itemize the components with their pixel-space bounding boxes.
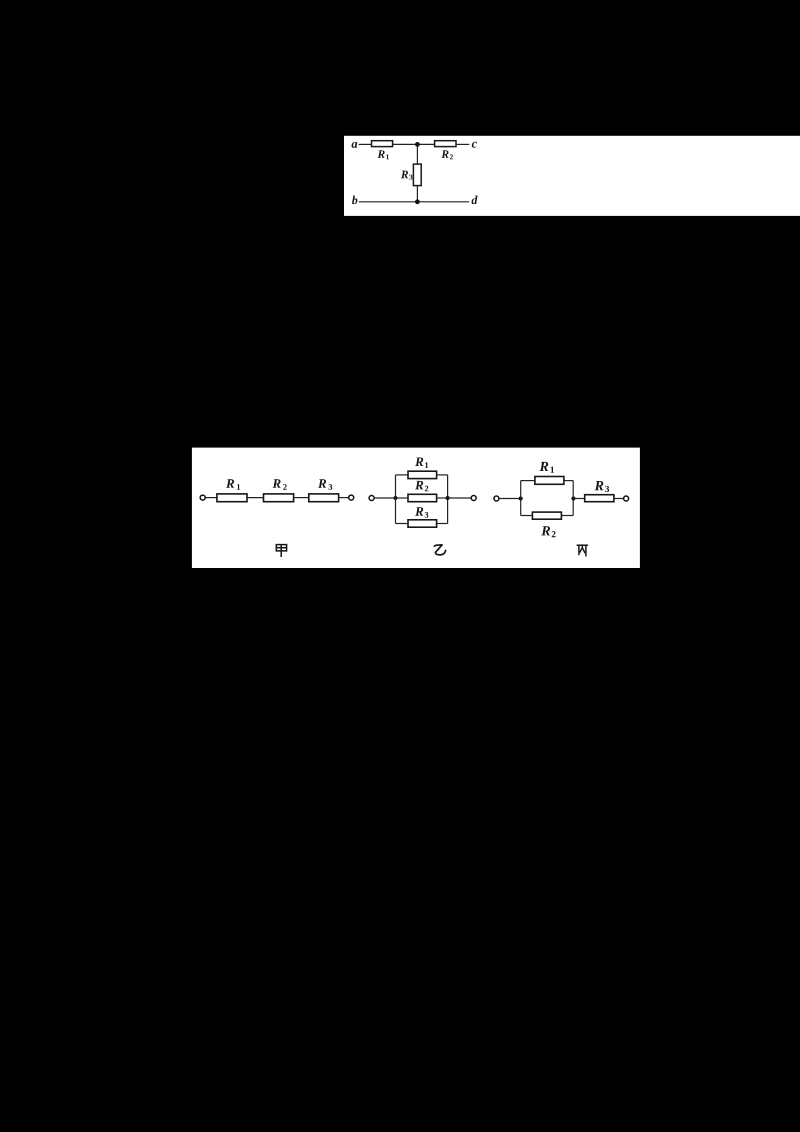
jia character <box>276 545 286 557</box>
R3 label bing <box>595 481 604 490</box>
node junction top <box>415 142 420 147</box>
wire b to d <box>359 201 469 203</box>
resistor R1 jia <box>217 494 247 502</box>
node a label <box>352 142 358 148</box>
wire R3 to bottom node <box>416 186 418 202</box>
mid branch wire yi <box>396 497 409 499</box>
wire <box>448 497 472 499</box>
resistor R2 <box>435 141 456 147</box>
wire <box>339 497 349 499</box>
figure 1 white panel <box>344 136 800 216</box>
R2 value label <box>441 150 448 158</box>
terminal right yi <box>471 496 476 501</box>
wire <box>205 497 217 499</box>
R1 value label <box>377 150 384 158</box>
terminal right jia <box>349 495 354 500</box>
R2 label jia <box>272 479 280 488</box>
wire a to R1 <box>359 143 372 145</box>
resistor R2 yi <box>408 494 437 501</box>
right rail bing <box>572 481 574 516</box>
yi character <box>434 545 445 555</box>
wire <box>437 497 448 499</box>
left rail bing <box>520 481 522 516</box>
figure 2 white panel <box>192 448 640 568</box>
top branch bing <box>521 480 535 482</box>
terminal right bing <box>624 496 629 501</box>
R1 label yi <box>415 457 423 466</box>
R3 value label <box>401 171 408 179</box>
node right yi <box>446 496 450 500</box>
wire <box>573 498 584 500</box>
circuit bing: terminal left <box>494 496 499 501</box>
bottom branch bing <box>521 515 533 517</box>
node b label <box>352 196 357 204</box>
circuit jia: terminal left <box>200 495 205 500</box>
resistor R3 jia <box>309 494 339 502</box>
bottom branch wire yi <box>396 523 409 525</box>
node left yi <box>394 496 398 500</box>
wire <box>247 497 264 499</box>
node right bing <box>571 497 575 501</box>
circuit yi: terminal left <box>369 496 374 501</box>
top branch wire yi <box>396 474 409 476</box>
resistor R2 jia <box>264 494 294 502</box>
node d label <box>472 196 478 204</box>
resistor R3 bing <box>585 495 614 502</box>
wire <box>437 523 448 525</box>
resistor R3 vertical <box>413 164 421 186</box>
wire <box>564 480 573 482</box>
wire <box>499 498 521 500</box>
resistor R1 yi <box>408 471 437 478</box>
resistor R3 yi <box>408 520 437 527</box>
node left bing <box>519 497 523 501</box>
R3 label yi <box>415 507 423 516</box>
R1 label jia <box>226 479 234 488</box>
node c label <box>472 142 477 148</box>
right rail yi <box>447 475 449 524</box>
wire <box>614 498 624 500</box>
R3 label jia <box>318 479 326 488</box>
left rail yi <box>395 475 397 524</box>
wire node to R3 <box>416 144 418 164</box>
wire <box>294 497 309 499</box>
resistor R2 bing <box>532 512 561 519</box>
wire R1 to node to R2 <box>393 143 435 145</box>
R2 label yi <box>415 481 423 490</box>
resistor R1 <box>372 141 393 147</box>
bing character <box>577 545 589 556</box>
resistor R1 bing <box>535 477 564 485</box>
wire <box>561 515 573 517</box>
R1 label bing <box>539 462 548 471</box>
R2 label bing <box>541 526 550 535</box>
node junction bottom <box>415 199 420 204</box>
wire <box>374 497 395 499</box>
wire <box>437 474 448 476</box>
wire R2 to c <box>456 143 469 145</box>
